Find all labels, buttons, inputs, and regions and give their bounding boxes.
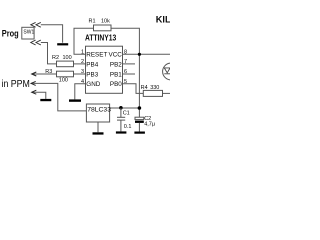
- svg-text:SW1: SW1: [23, 29, 34, 35]
- svg-text:100: 100: [59, 78, 68, 84]
- ground (C1): [116, 131, 127, 133]
- wire pin5 PB0 to R4: [123, 84, 144, 94]
- svg-text:R4: R4: [141, 85, 148, 91]
- capacitor C1: [117, 108, 125, 131]
- svg-text:ATTINY13: ATTINY13: [85, 33, 117, 42]
- connector arrow in PPM signal: [31, 72, 36, 94]
- svg-text:4: 4: [81, 79, 84, 85]
- svg-text:5: 5: [124, 79, 127, 85]
- switch SW1: [22, 27, 34, 39]
- wire in PPM gnd: [32, 92, 46, 99]
- svg-text:10k: 10k: [101, 19, 110, 25]
- svg-text:RESET: RESET: [86, 52, 107, 59]
- node VCC junction (R1/VCC): [138, 53, 141, 56]
- svg-text:0.1: 0.1: [124, 124, 132, 130]
- wire in PPM +V to regulator input: [31, 83, 86, 111]
- svg-text:PB4: PB4: [86, 61, 98, 68]
- svg-text:100: 100: [63, 55, 72, 61]
- wire RESET net: R1 left to pin1: [74, 28, 94, 54]
- svg-text:Prog: Prog: [2, 28, 19, 39]
- svg-text:C1: C1: [123, 110, 130, 116]
- svg-text:GND: GND: [86, 81, 100, 88]
- wire in PPM signal to R3: [32, 73, 57, 75]
- resistor R2: [57, 61, 74, 67]
- svg-text:in PPM: in PPM: [2, 79, 30, 90]
- svg-text:R2: R2: [52, 55, 59, 61]
- wire pin4 GND to ground: [75, 84, 85, 100]
- resistor R1: [94, 25, 112, 31]
- ground (regulator): [93, 132, 104, 134]
- svg-text:R3: R3: [45, 69, 52, 75]
- svg-text:1: 1: [81, 50, 84, 56]
- svg-text:PB1: PB1: [110, 71, 122, 78]
- svg-text:KILL: KILL: [156, 15, 170, 25]
- svg-text:3: 3: [81, 69, 84, 75]
- wire regulator ground stem: [97, 122, 99, 132]
- voltage regulator 78LC33: [86, 104, 109, 122]
- ground (SW1 top contact): [57, 43, 68, 45]
- wire R2 right to pin2: [74, 63, 86, 65]
- resistor R3: [57, 71, 74, 77]
- ground (PPM connector): [40, 99, 51, 101]
- pin numbers: [81, 50, 127, 86]
- svg-text:VCC: VCC: [109, 52, 123, 59]
- wire 3.3V rail regulator output to C1 C2: [110, 107, 140, 109]
- wire VCC pin8 row to right edge (KILL/LED): [123, 53, 171, 55]
- wire R3 right to pin3: [74, 73, 86, 75]
- svg-text:330: 330: [150, 85, 159, 91]
- wire pin6 stub: [123, 73, 136, 75]
- resistor R4: [143, 90, 162, 96]
- wire SW1 top contact to ground: [41, 25, 63, 43]
- IC U1 ATTINY13: [86, 46, 123, 93]
- wire SW1 bottom contact to R2: [41, 43, 57, 64]
- wire pin7 stub: [123, 63, 136, 65]
- ground (C2): [134, 132, 145, 134]
- svg-text:2: 2: [81, 59, 84, 65]
- wire R4 right to LED: [163, 92, 171, 94]
- svg-text:4,7µ: 4,7µ: [144, 121, 156, 127]
- ground (IC pin4): [69, 99, 81, 101]
- svg-text:8: 8: [124, 50, 127, 56]
- node rail junction C1: [119, 106, 123, 110]
- svg-text:PB2: PB2: [110, 61, 122, 68]
- svg-text:R1: R1: [89, 19, 96, 25]
- svg-text:6: 6: [124, 69, 127, 75]
- LED D1 in circle: [163, 63, 180, 80]
- svg-text:PB0: PB0: [110, 81, 122, 88]
- svg-text:PB3: PB3: [86, 71, 98, 78]
- svg-text:78LC33: 78LC33: [87, 107, 111, 114]
- svg-text:7: 7: [124, 59, 127, 65]
- node 3.3V rail junction C2: [138, 106, 142, 110]
- capacitor C2 polarized: [135, 117, 144, 119]
- wire R1 right to VCC vertical: [111, 28, 139, 117]
